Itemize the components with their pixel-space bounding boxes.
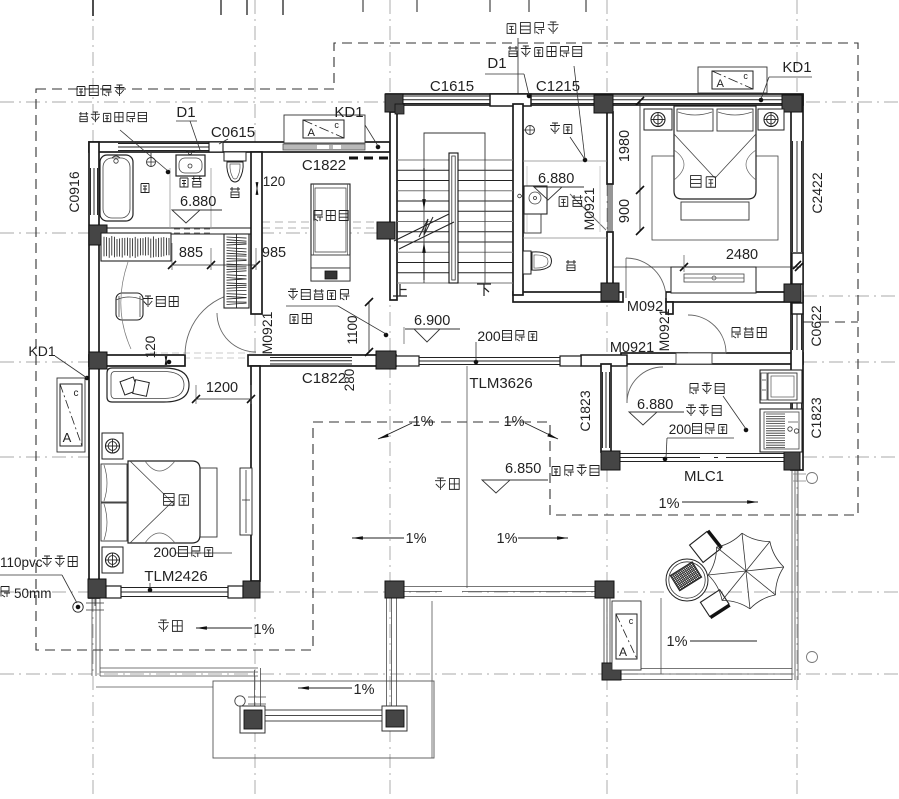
label 洞高至梁底: [288, 289, 298, 300]
wardrobe hatched cloakroom right: [224, 234, 249, 308]
label 卧室 top-right: [691, 176, 702, 188]
leader dots: [166, 170, 170, 174]
label 二次装修设计 left: [79, 112, 88, 122]
svg-text:C0916: C0916: [66, 171, 82, 212]
wall V1 left exterior: [89, 142, 99, 598]
svg-text:M0921: M0921: [581, 187, 597, 230]
bed2 nightstand right: [758, 109, 784, 130]
svg-text:A: A: [716, 78, 724, 90]
wall V4 shower left: [513, 104, 523, 295]
svg-text:A: A: [619, 645, 627, 659]
svg-text:200: 200: [477, 328, 501, 344]
svg-text:200: 200: [669, 422, 692, 437]
platform railing: [263, 709, 383, 711]
svg-text:1%: 1%: [254, 622, 275, 638]
jacuzzi tub bedroom1: [107, 368, 189, 402]
small circles right margin: [807, 473, 818, 484]
bed1 left bedroom: [128, 461, 200, 543]
label 卫 bath1: [230, 187, 240, 198]
bed1 wardrobe mirror right: [240, 468, 252, 535]
door bedroom2: [625, 258, 627, 298]
treadmill gym: [311, 184, 350, 281]
stair top landing: [424, 133, 485, 160]
sunroom washing machine: [760, 409, 802, 452]
svg-text:6.850: 6.850: [505, 461, 541, 477]
svg-text:KD1: KD1: [782, 59, 811, 76]
label 露台 bottom-left: [158, 620, 169, 632]
door bedroom1 (M0921): [185, 292, 248, 355]
wall V5 corridor right: [607, 112, 613, 184]
sunroom sink cabinet: [760, 370, 802, 403]
wall W4 storage bottom / sunroom top (y353-364): [621, 353, 803, 364]
label 二次装修设计 top: [508, 46, 518, 57]
svg-text:1100: 1100: [345, 315, 360, 344]
bathtub top-left: [100, 155, 133, 221]
label 健身区: [314, 211, 323, 222]
svg-text:200: 200: [153, 544, 177, 560]
beam dashes near bedroom1 door: [150, 352, 258, 354]
wall W2 main top (y94-105): [386, 94, 803, 105]
section marker box top right: [698, 67, 767, 93]
label 余同: [290, 315, 298, 324]
svg-text:TLM2426: TLM2426: [144, 568, 207, 585]
svg-text:C0622: C0622: [808, 305, 824, 346]
label 阳光房: [690, 384, 699, 395]
svg-text:c: c: [74, 388, 79, 399]
label 浴 bath1: [141, 184, 149, 193]
gym ceiling beam dashed: [262, 221, 379, 223]
svg-text:A: A: [307, 127, 315, 139]
bath1 partition lines: [169, 168, 171, 228]
railing vertical x386-397: [386, 598, 388, 707]
stair flight edge lines: [423, 160, 425, 283]
svg-text:c: c: [629, 616, 634, 626]
svg-text:c: c: [743, 71, 748, 81]
wall V3 stair left: [390, 112, 397, 300]
patio chair upper: [690, 531, 722, 563]
grid horizontal axis lines: [0, 101, 899, 103]
structural columns: [385, 94, 403, 112]
label 卧室 left: [164, 494, 175, 506]
bottom platform outline: [213, 681, 434, 758]
svg-text:C0615: C0615: [211, 124, 255, 141]
svg-text:900: 900: [617, 199, 633, 223]
label 卫 shower: [566, 260, 576, 271]
svg-text:1%: 1%: [406, 531, 427, 547]
svg-text:6.900: 6.900: [414, 313, 450, 329]
svg-text:1%: 1%: [659, 496, 680, 512]
svg-text:MLC1: MLC1: [684, 468, 724, 485]
railing right edge x792-798: [791, 470, 793, 680]
section marker box left: [57, 378, 85, 452]
wall V6 storage left stub: [666, 302, 673, 314]
dim 1980/900 bedroom2: [639, 101, 641, 231]
bed2 bench: [681, 202, 749, 220]
rain pipe circle bottom-left: [73, 602, 83, 612]
staircase treads: [397, 159, 513, 161]
svg-text:A: A: [63, 430, 72, 445]
label 私卫 bath1: [180, 178, 188, 187]
KD1 dashed beam segment: [349, 157, 390, 160]
svg-text:2480: 2480: [726, 247, 758, 263]
toilet shower room: [523, 251, 531, 274]
wall V2 cloak/gym: [251, 152, 262, 314]
svg-text:885: 885: [179, 245, 203, 261]
shower symbol bath1: [147, 158, 156, 167]
svg-text:C1823: C1823: [808, 397, 824, 438]
grid vertical axis lines: [92, 0, 94, 799]
label 储藏间: [732, 328, 741, 339]
TLM3626 window lines: [419, 357, 560, 359]
svg-text:C2422: C2422: [809, 172, 825, 213]
svg-text:1%: 1%: [497, 531, 518, 547]
svg-text:D1: D1: [487, 55, 506, 72]
patio chair lower: [700, 590, 729, 618]
bed1 bench: [200, 468, 217, 537]
stair break line: [394, 214, 449, 241]
dashed branch right: [803, 321, 858, 323]
svg-text:1%: 1%: [354, 682, 375, 698]
glass partition leader vertical: [517, 38, 519, 96]
railing left terrace horizontal: [100, 667, 258, 669]
dashed roof overhang outline: [36, 43, 858, 650]
bed2 rug: [652, 156, 778, 240]
sink bath1: [176, 155, 205, 176]
wall W7 sunroom bottom MLC1 (y452-463): [620, 453, 784, 455]
armchair cloakroom: [116, 293, 143, 320]
label 玻璃隔断 top: [507, 24, 516, 34]
wall W5 long middle band (y355-366): [89, 355, 185, 366]
partition lines shower room: [523, 160, 607, 162]
wall V9 bedroom1 right: [251, 366, 260, 581]
wall W6 bedroom1 bottom TLM2426 (y583-598): [106, 586, 121, 598]
platform boxed columns: [240, 706, 265, 733]
svg-text:6.880: 6.880: [637, 397, 673, 413]
svg-text:6.880: 6.880: [538, 171, 574, 187]
svg-text:C1615: C1615: [430, 78, 474, 95]
railing y586-597 middle: [404, 586, 595, 588]
railing corner down to platform: [254, 670, 256, 708]
svg-text:1%: 1%: [667, 634, 688, 650]
svg-text:1200: 1200: [206, 380, 238, 396]
door cloakroom: [217, 313, 256, 352]
svg-text:C1215: C1215: [536, 78, 580, 95]
terrace slab division lines: [466, 366, 468, 588]
wall W1 top-left (y142-152): [89, 142, 390, 152]
door shower room leaf: [570, 194, 606, 230]
svg-text:C1822: C1822: [302, 370, 346, 387]
stair 下 label: [477, 284, 491, 296]
wall W3 corridor/bedroom2 bottom (y292-302): [513, 292, 623, 302]
top wall pier: [490, 94, 531, 106]
svg-text:C1823: C1823: [577, 390, 593, 431]
wall W8 bath1 bottom (y228-234): [107, 228, 251, 234]
bed2 nightstand left: [644, 109, 672, 130]
wall V7 sunroom left: [601, 364, 611, 452]
window C1822 gray band in W1: [283, 144, 365, 150]
stair 上 label: [393, 284, 407, 296]
stair center rail: [449, 153, 458, 283]
svg-text:C1822: C1822: [302, 157, 346, 174]
svg-text:1980: 1980: [617, 130, 633, 162]
svg-text:50mm: 50mm: [14, 586, 52, 601]
railing left terrace vertical: [91, 598, 93, 676]
svg-text:TLM3626: TLM3626: [469, 375, 532, 392]
TLM3626 window end blocks: [396, 356, 419, 366]
door storage: [688, 352, 726, 354]
patio umbrella: [742, 533, 746, 571]
label 衣帽间: [143, 296, 153, 307]
wall stub below col x604-610: [603, 598, 605, 663]
label 淋浴: [550, 123, 560, 134]
bed1 nightstand bottom: [102, 547, 123, 573]
bed2 top-right: [674, 106, 756, 199]
shower symbol room2: [526, 126, 535, 135]
bed2 dresser: [671, 267, 756, 293]
svg-text:110pvc: 110pvc: [0, 555, 43, 570]
svg-text:120: 120: [263, 174, 286, 189]
label 私卫 shower: [559, 197, 568, 207]
label 露台 middle: [435, 478, 446, 490]
label 结构标高: [552, 467, 560, 476]
stair direction arrows: [423, 168, 425, 205]
wall V8 right exterior: [791, 95, 803, 470]
leader lines: [120, 130, 168, 171]
section marker box bottom right: [612, 601, 641, 670]
door sunroom: [626, 367, 628, 403]
svg-text:c: c: [334, 120, 339, 130]
window C0615 gap: [209, 142, 223, 152]
section marker box above gym: [284, 115, 365, 143]
svg-text:KD1: KD1: [28, 343, 55, 359]
svg-text:M092: M092: [627, 299, 663, 315]
toilet bath1: [224, 152, 246, 161]
svg-text:6.880: 6.880: [180, 194, 216, 210]
round table: [666, 559, 708, 601]
svg-text:1%: 1%: [413, 414, 434, 430]
svg-text:M0921: M0921: [610, 340, 654, 356]
svg-text:M0921: M0921: [259, 311, 275, 354]
bed1 nightstand top: [102, 433, 123, 459]
wardrobe hatched cloakroom top: [101, 233, 171, 261]
svg-text:985: 985: [262, 245, 286, 261]
label 玻璃隔断 left: [77, 87, 85, 96]
svg-text:KD1: KD1: [334, 104, 363, 121]
top margin leader ticks: [220, 0, 222, 15]
label 洗衣房: [686, 405, 696, 416]
sink shower room: [524, 186, 547, 214]
svg-text:1%: 1%: [504, 414, 525, 430]
svg-text:D1: D1: [176, 104, 195, 121]
railing y668-680 right: [621, 668, 792, 670]
rain pipe circle platform: [235, 696, 245, 706]
svg-text:120: 120: [143, 336, 158, 359]
